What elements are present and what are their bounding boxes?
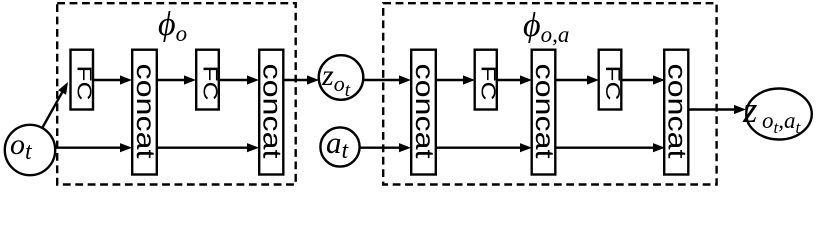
svg-text:FC: FC [73, 66, 95, 101]
svg-text:FC: FC [477, 66, 499, 101]
svg-text:FC: FC [199, 66, 221, 101]
svg-text:concat: concat [530, 64, 560, 160]
svg-text:concat: concat [258, 64, 288, 160]
svg-text:concat: concat [131, 64, 161, 160]
svg-text:FC: FC [601, 66, 623, 101]
svg-text:concat: concat [410, 64, 440, 160]
svg-text:concat: concat [663, 64, 693, 160]
